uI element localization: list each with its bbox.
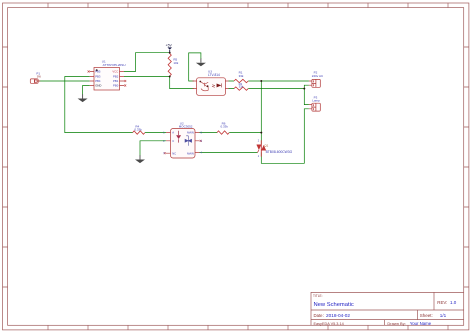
- svg-text:10k: 10k: [173, 61, 178, 65]
- svg-text:PB2: PB2: [113, 75, 119, 79]
- svg-text:Lamp: Lamp: [312, 98, 320, 102]
- svg-text:6: 6: [201, 132, 203, 135]
- svg-text:PB0: PB0: [113, 84, 119, 88]
- svg-text:Drawn By:: Drawn By:: [387, 321, 405, 326]
- svg-text:2: 2: [163, 140, 165, 143]
- svg-text:MAIN: MAIN: [187, 131, 194, 135]
- svg-text:GND: GND: [95, 84, 101, 88]
- svg-text:2018-04-02: 2018-04-02: [326, 313, 350, 318]
- svg-text:33k: 33k: [239, 85, 244, 89]
- svg-text:Q1: Q1: [264, 144, 268, 148]
- svg-text:MAIN: MAIN: [187, 151, 194, 155]
- svg-text:Date:: Date:: [314, 313, 324, 318]
- svg-text:33k: 33k: [239, 74, 244, 78]
- svg-text:LTV-814: LTV-814: [208, 73, 220, 77]
- svg-text:220v AC: 220v AC: [312, 74, 324, 78]
- svg-text:1.0: 1.0: [450, 300, 457, 305]
- svg-text:PB5: PB5: [95, 70, 101, 74]
- svg-text:0.33k: 0.33k: [221, 124, 229, 128]
- svg-text:1: 1: [258, 155, 260, 158]
- svg-text:EasyEDA V5.3.14: EasyEDA V5.3.14: [314, 322, 344, 326]
- svg-text:PB3: PB3: [95, 75, 101, 79]
- svg-text:TITLE:: TITLE:: [313, 294, 323, 298]
- svg-text:NC: NC: [172, 151, 176, 155]
- svg-text:4: 4: [201, 152, 203, 155]
- svg-text:+5V: +5V: [166, 44, 173, 48]
- svg-text:SW: SW: [37, 75, 42, 78]
- svg-text:MOC3052: MOC3052: [179, 124, 193, 128]
- svg-text:PB1: PB1: [113, 79, 119, 83]
- svg-text:BTB08-600CW3G: BTB08-600CW3G: [266, 150, 293, 154]
- svg-text:A: A: [172, 131, 174, 135]
- svg-text:VCC: VCC: [112, 70, 118, 74]
- svg-text:C: C: [172, 139, 174, 143]
- svg-text:PB4: PB4: [95, 79, 101, 83]
- svg-text:Sheet:: Sheet:: [420, 313, 433, 318]
- svg-text:REV:: REV:: [437, 300, 447, 305]
- svg-text:0.33k: 0.33k: [134, 127, 142, 131]
- svg-text:1/1: 1/1: [440, 313, 447, 318]
- svg-text:5: 5: [201, 140, 203, 143]
- svg-text:Your Name: Your Name: [410, 321, 432, 326]
- svg-text:New Schematic: New Schematic: [314, 302, 354, 308]
- svg-text:ATTINY85-20SU: ATTINY85-20SU: [103, 63, 126, 67]
- svg-text:1: 1: [163, 132, 165, 135]
- svg-text:2: 2: [258, 140, 260, 143]
